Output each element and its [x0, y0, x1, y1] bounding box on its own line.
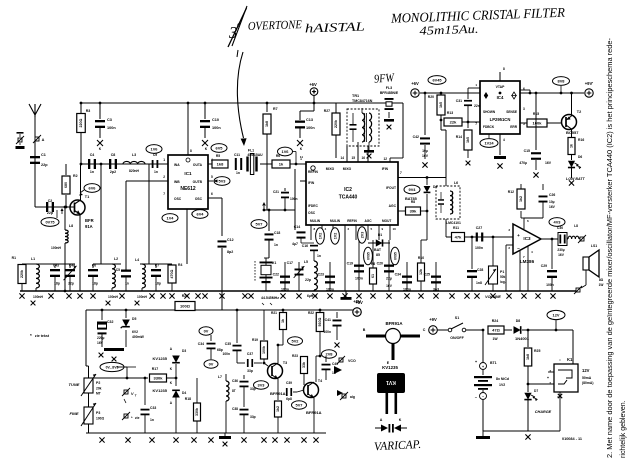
svg-text:100n: 100n [475, 246, 483, 250]
svg-text:61: 61 [371, 274, 375, 278]
svg-text:1V4: 1V4 [167, 216, 175, 221]
svg-text:alg: alg [350, 395, 355, 399]
svg-text:IFIN: IFIN [382, 167, 389, 171]
svg-text:0V95: 0V95 [366, 252, 370, 260]
svg-text:FL1: FL1 [248, 149, 254, 153]
svg-text:1n: 1n [90, 170, 94, 174]
svg-text:4V3: 4V3 [554, 220, 562, 225]
svg-text:B: B [363, 328, 366, 332]
svg-text:KV1235: KV1235 [153, 356, 168, 361]
svg-text:1k: 1k [279, 162, 284, 167]
svg-text:0V: 0V [209, 362, 214, 367]
svg-text:(80mA): (80mA) [582, 381, 594, 385]
svg-text:1V6: 1V6 [151, 147, 159, 152]
svg-text:12: 12 [383, 157, 387, 161]
svg-text:X1: X1 [272, 261, 276, 265]
svg-text:K1: K1 [567, 357, 573, 362]
svg-text:12V: 12V [582, 368, 590, 373]
svg-text:zie tekst: zie tekst [35, 334, 50, 338]
svg-text:1V24: 1V24 [484, 141, 494, 146]
svg-text:BFR: BFR [85, 218, 94, 223]
svg-text:IFIN: IFIN [308, 181, 315, 185]
svg-text:FDBCK: FDBCK [483, 125, 495, 129]
svg-text:+: + [517, 233, 520, 238]
svg-text:KV1: KV1 [386, 379, 396, 385]
svg-text:BFR91A: BFR91A [385, 321, 403, 326]
svg-text:C29: C29 [541, 264, 547, 268]
svg-text:R4: R4 [178, 263, 182, 267]
svg-text:C25: C25 [424, 273, 430, 277]
svg-text:9V4: 9V4 [409, 187, 417, 192]
svg-text:1k5: 1k5 [466, 137, 470, 143]
svg-text:C10: C10 [212, 118, 219, 122]
svg-text:100n: 100n [323, 330, 331, 334]
svg-text:45M15AU: 45M15AU [247, 153, 263, 157]
svg-text:+9V': +9V' [585, 81, 594, 86]
svg-text:KV1235: KV1235 [153, 388, 168, 393]
svg-text:010084 - 11: 010084 - 11 [562, 437, 582, 441]
svg-text:L7: L7 [218, 375, 222, 379]
svg-text:22k: 22k [450, 120, 457, 125]
svg-text:0V...8V8: 0V...8V8 [106, 366, 119, 370]
svg-text:11: 11 [300, 155, 304, 159]
svg-text:LM386: LM386 [520, 259, 535, 264]
svg-text:47k: 47k [455, 235, 462, 240]
svg-text:D8: D8 [516, 319, 521, 323]
svg-text:16: 16 [361, 156, 365, 160]
svg-text:100Ω: 100Ω [96, 417, 105, 421]
svg-text:22p: 22p [47, 211, 54, 215]
svg-text:5V7: 5V7 [296, 403, 303, 408]
svg-text:FL3: FL3 [386, 86, 392, 90]
svg-text:R14: R14 [456, 135, 462, 139]
svg-text:R2: R2 [73, 174, 78, 178]
svg-text:2p2: 2p2 [110, 170, 116, 174]
svg-text:6V45: 6V45 [432, 78, 442, 83]
svg-text:REFIN: REFIN [308, 170, 319, 174]
svg-text:A: A [42, 138, 45, 142]
svg-text:R12: R12 [508, 190, 514, 194]
svg-text:9FW: 9FW [373, 70, 395, 86]
svg-text:33k: 33k [302, 362, 306, 368]
svg-text:R13: R13 [447, 111, 453, 115]
svg-text:P1: P1 [500, 270, 504, 274]
svg-text:C41: C41 [325, 318, 331, 322]
svg-text:33p: 33p [250, 415, 256, 419]
svg-text:1n: 1n [150, 418, 154, 422]
svg-text:4: 4 [503, 138, 505, 142]
svg-text:L1: L1 [31, 257, 35, 261]
svg-text:6p8: 6p8 [286, 397, 292, 401]
svg-text:R27: R27 [324, 109, 330, 113]
svg-text:16V: 16V [97, 341, 104, 345]
svg-text:100n: 100n [212, 126, 221, 130]
svg-text:MT: MT [96, 392, 101, 396]
svg-text:1k2: 1k2 [519, 196, 523, 202]
svg-text:VARICAP.: VARICAP. [374, 437, 422, 453]
svg-text:REFIN: REFIN [347, 219, 357, 223]
svg-text:220k: 220k [20, 270, 24, 278]
svg-text:C3: C3 [107, 118, 112, 122]
svg-text:100k: 100k [533, 121, 543, 126]
svg-text:D3: D3 [182, 349, 186, 353]
svg-text:R11: R11 [453, 226, 459, 230]
svg-text:D1: D1 [378, 233, 382, 237]
svg-text:TMC84716N: TMC84716N [352, 99, 373, 103]
svg-text:0V: 0V [204, 329, 209, 334]
svg-text:T4: T4 [318, 379, 322, 383]
svg-text:L5: L5 [304, 260, 308, 264]
svg-text:R1: R1 [12, 256, 16, 260]
svg-text:K: K [399, 418, 402, 422]
svg-text:R5: R5 [216, 154, 220, 158]
svg-text:1n: 1n [154, 170, 158, 174]
svg-text:6V6: 6V6 [89, 186, 97, 191]
svg-text:3V3: 3V3 [258, 383, 266, 388]
svg-text:MULIN: MULIN [330, 219, 341, 223]
svg-text:100n: 100n [107, 126, 116, 130]
svg-text:22p: 22p [68, 282, 74, 286]
svg-text:8Ω: 8Ω [599, 278, 604, 282]
svg-text:+9V: +9V [429, 317, 437, 322]
svg-text:C32: C32 [107, 320, 113, 324]
svg-text:C: C [423, 328, 426, 332]
svg-text:1n8: 1n8 [476, 281, 482, 285]
svg-text:100n: 100n [306, 126, 315, 130]
svg-text:2. Met name door de toepassing: 2. Met name door de toepassing van de ge… [607, 37, 614, 458]
svg-text:220k: 220k [334, 120, 338, 128]
svg-text:20k: 20k [96, 387, 102, 391]
svg-text:100n: 100n [355, 277, 363, 281]
svg-text:0V95: 0V95 [393, 252, 397, 260]
svg-text:R21: R21 [271, 311, 277, 315]
svg-text:R20: R20 [428, 95, 434, 99]
svg-text:C21: C21 [273, 190, 279, 194]
svg-text:L6: L6 [454, 181, 458, 185]
svg-text:1V2: 1V2 [333, 233, 337, 240]
svg-text:4µ7: 4µ7 [292, 242, 298, 246]
svg-text:VOLUME: VOLUME [485, 295, 501, 299]
svg-text:C7: C7 [155, 264, 159, 268]
svg-text:1n: 1n [317, 254, 321, 258]
svg-text:C38: C38 [232, 407, 238, 411]
svg-text:C31: C31 [456, 99, 462, 103]
svg-text:1k2: 1k2 [276, 406, 280, 412]
svg-text:8x NiCd: 8x NiCd [496, 377, 509, 381]
svg-text:5: 5 [211, 175, 213, 179]
svg-text:1W: 1W [492, 337, 498, 341]
svg-text:2: 2 [163, 175, 165, 179]
svg-text:C33: C33 [150, 406, 156, 410]
svg-text:D4: D4 [182, 391, 186, 395]
svg-text:AGC: AGC [364, 219, 372, 223]
svg-text:OSC: OSC [308, 211, 316, 215]
svg-text:1k5: 1k5 [439, 102, 443, 108]
svg-text:D5: D5 [132, 317, 136, 321]
svg-text:P3: P3 [96, 411, 100, 415]
svg-text:R19: R19 [252, 338, 258, 342]
svg-text:18p: 18p [155, 282, 161, 286]
svg-text:C30: C30 [557, 226, 563, 230]
svg-text:16V: 16V [558, 253, 565, 257]
svg-text:IFDEC: IFDEC [308, 204, 319, 208]
svg-text:C12: C12 [227, 238, 234, 242]
svg-text:C27: C27 [476, 226, 482, 230]
svg-text:C15: C15 [524, 149, 530, 153]
svg-text:R23: R23 [292, 354, 298, 358]
svg-text:L3: L3 [132, 153, 136, 157]
svg-text:16V: 16V [549, 205, 556, 209]
svg-text:8: 8 [190, 149, 192, 153]
svg-text:8V8: 8V8 [558, 79, 566, 84]
svg-text:INA: INA [174, 163, 180, 167]
svg-text:OUTA: OUTA [193, 163, 203, 167]
svg-text:TUNE: TUNE [69, 382, 80, 387]
svg-text:R24: R24 [492, 319, 498, 323]
svg-text:LP2951CN: LP2951CN [490, 117, 511, 122]
svg-text:1n: 1n [274, 243, 278, 247]
svg-text:−: − [482, 395, 484, 399]
svg-text:470µ: 470µ [519, 161, 527, 165]
svg-text:12V: 12V [553, 313, 560, 318]
svg-text:T1: T1 [85, 195, 89, 199]
svg-text:MIXO: MIXO [326, 167, 335, 171]
svg-text:AGC: AGC [389, 204, 397, 208]
svg-text:NE612: NE612 [180, 186, 196, 192]
svg-text:10: 10 [393, 227, 397, 231]
svg-text:400mW: 400mW [132, 335, 145, 339]
svg-text:*: * [30, 333, 32, 338]
svg-text:C18: C18 [274, 231, 280, 235]
svg-text:10µ: 10µ [549, 200, 555, 204]
svg-text:R17: R17 [152, 367, 158, 371]
svg-text:100Ω: 100Ω [180, 304, 191, 309]
svg-text:C23: C23 [318, 273, 324, 277]
svg-text:15: 15 [351, 156, 355, 160]
svg-text:22µ: 22µ [386, 277, 392, 281]
svg-text:C44: C44 [69, 264, 75, 268]
svg-text:C11: C11 [234, 153, 240, 157]
svg-text:8T: 8T [232, 389, 236, 393]
svg-text:1n: 1n [236, 171, 240, 175]
svg-text:1k: 1k [281, 319, 285, 323]
svg-text:100n: 100n [546, 283, 554, 287]
svg-text:OVERTONE: OVERTONE [248, 17, 303, 33]
svg-text:6V5: 6V5 [216, 146, 224, 151]
svg-text:22n: 22n [474, 104, 480, 108]
svg-text:230µ: 230µ [557, 248, 564, 252]
svg-text:C26: C26 [549, 193, 555, 197]
svg-text:C1: C1 [41, 153, 46, 157]
svg-text:1k8: 1k8 [217, 162, 224, 167]
svg-text:T3: T3 [283, 361, 287, 365]
svg-text:+6V: +6V [411, 81, 419, 86]
svg-text:3: 3 [523, 107, 525, 111]
svg-text:FINE: FINE [69, 411, 78, 416]
svg-text:C42: C42 [413, 135, 419, 139]
svg-text:L8: L8 [574, 224, 578, 228]
svg-text:BAT: BAT [374, 248, 382, 252]
svg-text:91A: 91A [85, 224, 93, 229]
svg-text:100nH: 100nH [108, 295, 119, 299]
svg-text:SHOWN: SHOWN [483, 110, 496, 114]
svg-text:R8: R8 [411, 200, 415, 204]
svg-text:8p2: 8p2 [227, 250, 233, 254]
svg-text:richtelijk gebleven.: richtelijk gebleven. [620, 400, 627, 458]
svg-text:zie: zie [135, 416, 140, 420]
svg-text:0V75: 0V75 [45, 220, 55, 225]
svg-text:P2: P2 [96, 381, 100, 385]
svg-text:1V2: 1V2 [318, 233, 322, 240]
svg-text:C39: C39 [286, 381, 292, 385]
svg-text:1k: 1k [570, 144, 574, 148]
svg-text:6V2: 6V2 [132, 330, 138, 334]
svg-text:C8: C8 [111, 153, 116, 157]
svg-text:SENSE: SENSE [506, 110, 517, 114]
svg-text:IC3: IC3 [523, 236, 531, 241]
svg-text:50mA: 50mA [582, 376, 592, 380]
svg-text:1k8: 1k8 [265, 121, 269, 127]
svg-text:ERR: ERR [510, 125, 517, 129]
svg-text:100n: 100n [222, 352, 230, 356]
svg-text:85: 85 [376, 253, 380, 257]
svg-text:16V: 16V [545, 161, 552, 165]
svg-text:330k: 330k [195, 408, 199, 416]
svg-text:100nH: 100nH [33, 295, 44, 299]
svg-text:39k: 39k [410, 209, 417, 214]
svg-text:OUTB: OUTB [193, 180, 203, 184]
svg-text:5V7: 5V7 [256, 222, 263, 227]
svg-text:L4: L4 [135, 258, 139, 262]
svg-text:C34: C34 [198, 342, 204, 346]
svg-text:C28: C28 [477, 268, 483, 272]
svg-text:560Ω: 560Ω [318, 317, 322, 326]
svg-text:CHARGE: CHARGE [535, 410, 552, 414]
svg-text:+6V: +6V [309, 82, 317, 87]
svg-text:VCO: VCO [348, 359, 356, 363]
svg-text:+: + [482, 365, 484, 369]
svg-text:1V6: 1V6 [282, 149, 290, 154]
svg-text:S1: S1 [455, 316, 459, 320]
svg-text:50k: 50k [500, 275, 506, 279]
svg-text:T2: T2 [577, 110, 581, 114]
svg-text:A: A [380, 418, 383, 422]
svg-text:C37: C37 [247, 352, 253, 356]
svg-text:BC557: BC557 [566, 130, 579, 135]
svg-text:7: 7 [163, 192, 165, 196]
svg-text:C17: C17 [287, 261, 293, 265]
svg-text:2V8: 2V8 [326, 352, 334, 357]
svg-text:1k8: 1k8 [526, 354, 530, 360]
svg-text:7: 7 [475, 122, 477, 126]
svg-text:OSC: OSC [174, 197, 182, 201]
svg-text:100nH: 100nH [51, 246, 62, 250]
svg-text:R7: R7 [273, 107, 278, 111]
svg-text:R25: R25 [534, 349, 540, 353]
svg-text:8: 8 [503, 67, 505, 71]
svg-text:22p: 22p [305, 278, 311, 282]
svg-text:+8V: +8V [353, 299, 361, 304]
svg-text:45m15Au.: 45m15Au. [419, 22, 478, 38]
svg-text:16V: 16V [386, 284, 393, 288]
svg-text:IFOUT: IFOUT [386, 186, 396, 190]
svg-text:18p: 18p [54, 282, 60, 286]
svg-text:log.: log. [500, 280, 506, 284]
svg-text:MULIN: MULIN [310, 219, 321, 223]
svg-text:L8: L8 [69, 224, 73, 228]
svg-text:C22: C22 [273, 273, 279, 277]
svg-text:L2: L2 [114, 257, 118, 261]
svg-text:5V3: 5V3 [219, 179, 227, 184]
svg-text:MIXO: MIXO [343, 167, 352, 171]
svg-text:330k: 330k [154, 376, 164, 381]
svg-text:MOUT: MOUT [382, 219, 391, 223]
svg-text:22p: 22p [41, 163, 48, 167]
svg-text:7: 7 [400, 171, 402, 175]
svg-text:C13: C13 [306, 118, 313, 122]
svg-text:6V4: 6V4 [197, 212, 205, 217]
svg-text:R22: R22 [308, 311, 314, 315]
svg-text:C2: C2 [48, 199, 53, 203]
svg-text:33p: 33p [247, 369, 253, 373]
svg-text:hAISTAL: hAISTAL [305, 19, 365, 35]
svg-text:BFR485N/E: BFR485N/E [380, 91, 399, 95]
svg-text:TR1: TR1 [352, 94, 359, 98]
svg-text:IC4: IC4 [497, 95, 504, 100]
svg-text:R3: R3 [86, 109, 91, 113]
svg-text:R28: R28 [182, 294, 189, 298]
svg-text:IC1: IC1 [184, 171, 192, 176]
svg-text:1W: 1W [599, 283, 604, 287]
svg-text:680: 680 [64, 182, 68, 188]
svg-text:1: 1 [163, 158, 165, 162]
svg-text:R18: R18 [185, 397, 191, 401]
svg-text:C43: C43 [53, 264, 59, 268]
svg-text:100nH: 100nH [137, 295, 148, 299]
svg-text:R16: R16 [578, 138, 584, 142]
svg-text:LS1: LS1 [591, 244, 597, 248]
svg-text:470Ω: 470Ω [170, 269, 174, 278]
svg-text:C36: C36 [232, 379, 238, 383]
svg-text:44.545MHz: 44.545MHz [261, 296, 279, 300]
svg-text:C35: C35 [225, 342, 231, 346]
svg-text:C20: C20 [377, 262, 383, 266]
svg-text:C5: C5 [116, 268, 120, 272]
svg-text:INB: INB [174, 180, 180, 184]
svg-text:C6: C6 [92, 264, 96, 268]
svg-text:220µ: 220µ [97, 336, 105, 340]
svg-text:220Ω: 220Ω [79, 118, 83, 127]
svg-text:D7: D7 [534, 389, 538, 393]
svg-text:C16: C16 [302, 244, 308, 248]
svg-text:5V2: 5V2 [292, 339, 300, 344]
svg-text:D6: D6 [578, 155, 582, 159]
svg-text:IC2: IC2 [344, 187, 352, 193]
svg-text:VTAP: VTAP [496, 85, 506, 89]
svg-text:100n: 100n [290, 197, 298, 201]
svg-text:LMC4101: LMC4101 [446, 221, 461, 225]
svg-text:100k: 100k [262, 346, 266, 354]
svg-text:6: 6 [211, 192, 213, 196]
svg-text:C4: C4 [90, 153, 95, 157]
svg-text:C34: C34 [395, 273, 401, 277]
svg-text:2V3: 2V3 [360, 232, 364, 239]
svg-text:KV1235: KV1235 [382, 365, 398, 370]
svg-text:14: 14 [340, 156, 344, 160]
svg-text:C19: C19 [347, 262, 353, 266]
svg-text:1V2: 1V2 [499, 383, 505, 387]
svg-text:ON/OFF: ON/OFF [450, 336, 464, 340]
